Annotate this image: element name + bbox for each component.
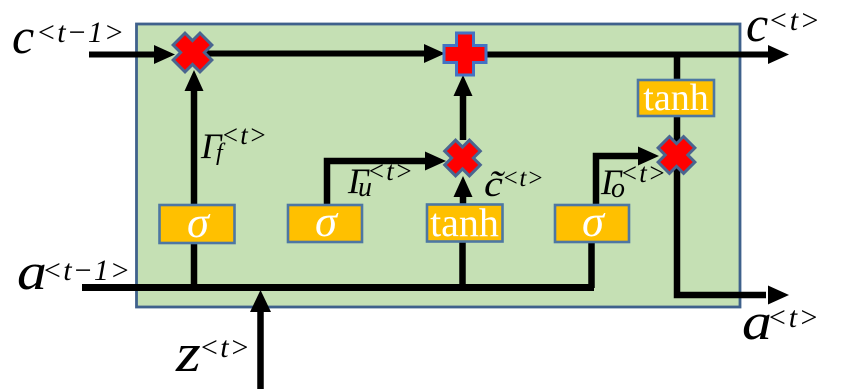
- svg-text:σ: σ: [315, 197, 339, 246]
- svg-text:tanh: tanh: [643, 77, 708, 119]
- svg-text:tanh: tanh: [430, 200, 499, 245]
- svg-text:σ: σ: [187, 198, 211, 247]
- svg-text:σ: σ: [582, 197, 606, 246]
